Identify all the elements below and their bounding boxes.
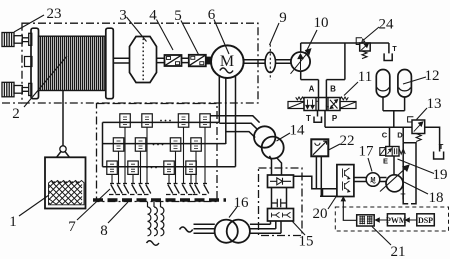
svg-text:13: 13 [427, 96, 442, 112]
svg-text:M: M [371, 178, 376, 184]
svg-text:20: 20 [313, 206, 328, 222]
svg-text:17: 17 [359, 144, 375, 160]
svg-text:C: C [382, 131, 388, 140]
svg-text:14: 14 [290, 123, 306, 139]
svg-text:22: 22 [340, 133, 355, 149]
svg-text:24: 24 [379, 17, 395, 33]
svg-text:B: B [330, 85, 336, 94]
svg-text:8: 8 [100, 223, 108, 239]
svg-text:19: 19 [433, 167, 448, 183]
svg-text:DSP: DSP [418, 216, 433, 225]
svg-text:7: 7 [68, 219, 76, 235]
svg-text:5: 5 [174, 8, 182, 24]
svg-text:P: P [332, 114, 338, 123]
svg-text:12: 12 [425, 68, 440, 84]
svg-text:10: 10 [314, 15, 329, 31]
svg-text:23: 23 [47, 6, 62, 22]
svg-text:16: 16 [234, 195, 250, 211]
svg-text:6: 6 [208, 7, 216, 23]
svg-text:D: D [397, 131, 403, 140]
svg-text:A: A [309, 85, 315, 94]
svg-text:18: 18 [429, 190, 444, 206]
svg-text:15: 15 [299, 234, 314, 250]
svg-text:M: M [220, 53, 234, 70]
svg-text:T: T [306, 114, 311, 123]
svg-text:T: T [439, 142, 444, 151]
svg-text:9: 9 [279, 10, 287, 26]
svg-text:2: 2 [12, 106, 20, 122]
svg-text:4: 4 [149, 8, 157, 24]
svg-text:T: T [392, 46, 397, 53]
svg-text:PWM: PWM [386, 216, 407, 225]
svg-text:E: E [383, 157, 388, 166]
svg-text:3: 3 [119, 8, 127, 24]
svg-text:T: T [401, 193, 406, 202]
svg-text:21: 21 [391, 244, 406, 259]
svg-text:11: 11 [358, 69, 372, 85]
svg-text:1: 1 [9, 214, 17, 230]
